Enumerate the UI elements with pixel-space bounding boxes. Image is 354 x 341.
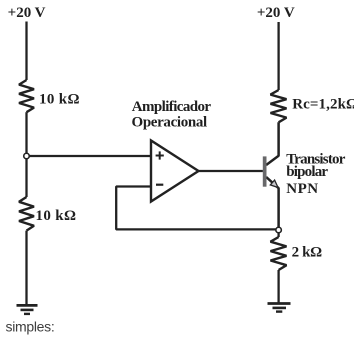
svg-text:bipolar: bipolar xyxy=(286,164,328,180)
svg-text:10 kΩ: 10 kΩ xyxy=(36,208,77,224)
svg-text:+20 V: +20 V xyxy=(257,5,295,21)
svg-text:Amplificador: Amplificador xyxy=(132,99,212,115)
svg-text:2 kΩ: 2 kΩ xyxy=(292,244,323,260)
svg-text:simples:: simples: xyxy=(6,319,55,335)
svg-text:10 kΩ: 10 kΩ xyxy=(39,92,80,108)
svg-text:NPN: NPN xyxy=(286,181,318,197)
svg-text:Rc=1,2kΩ: Rc=1,2kΩ xyxy=(292,97,354,113)
svg-text:+20 V: +20 V xyxy=(8,5,46,21)
svg-text:Operacional: Operacional xyxy=(132,114,207,130)
